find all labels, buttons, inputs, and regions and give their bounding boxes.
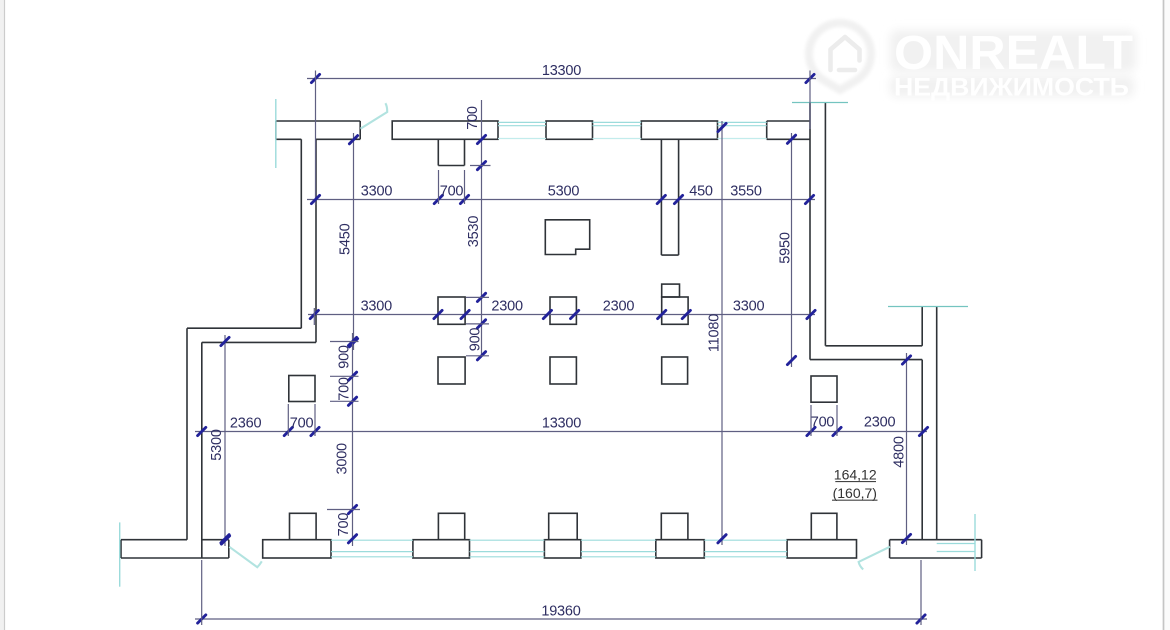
svg-text:900: 900 [468, 328, 484, 352]
svg-text:700: 700 [336, 513, 352, 537]
svg-text:5300: 5300 [548, 184, 580, 200]
svg-text:11080: 11080 [707, 314, 723, 352]
svg-text:5450: 5450 [337, 223, 353, 255]
svg-text:3000: 3000 [335, 443, 351, 475]
svg-text:700: 700 [440, 184, 464, 200]
svg-text:3530: 3530 [466, 216, 482, 248]
svg-text:700: 700 [811, 415, 835, 431]
svg-text:ONREALT: ONREALT [894, 27, 1133, 80]
svg-text:2300: 2300 [603, 299, 635, 315]
svg-text:700: 700 [465, 106, 481, 130]
svg-text:19360: 19360 [541, 603, 580, 619]
svg-text:НЕДВИЖИМОСТЬ: НЕДВИЖИМОСТЬ [894, 74, 1129, 102]
svg-text:164,12: 164,12 [834, 467, 877, 483]
svg-text:3300: 3300 [361, 184, 393, 200]
svg-text:4800: 4800 [891, 436, 907, 468]
svg-text:3300: 3300 [361, 299, 393, 315]
svg-text:2300: 2300 [491, 299, 523, 315]
svg-text:5300: 5300 [209, 429, 225, 461]
svg-text:13300: 13300 [542, 63, 581, 79]
svg-text:3300: 3300 [733, 299, 765, 315]
svg-text:(160,7): (160,7) [833, 485, 877, 501]
svg-text:5950: 5950 [778, 232, 794, 264]
svg-text:700: 700 [290, 415, 314, 431]
svg-text:2360: 2360 [230, 415, 262, 431]
svg-text:3550: 3550 [730, 184, 762, 200]
svg-text:450: 450 [689, 184, 713, 200]
svg-text:700: 700 [337, 377, 353, 401]
svg-text:2300: 2300 [864, 415, 896, 431]
svg-text:900: 900 [337, 345, 353, 369]
svg-text:13300: 13300 [542, 415, 581, 431]
